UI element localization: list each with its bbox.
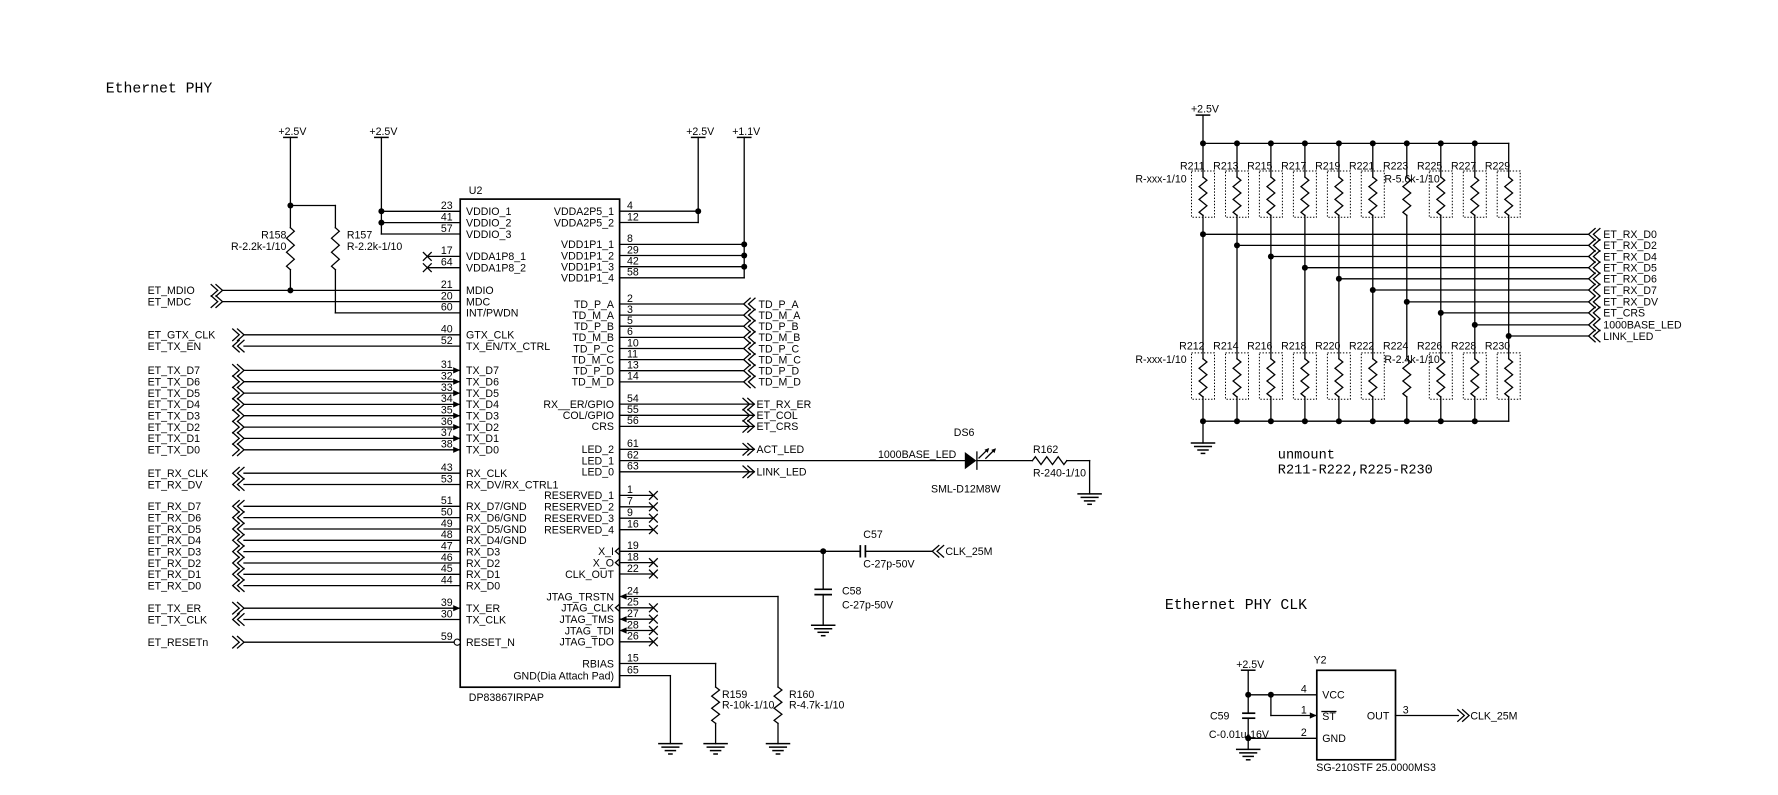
wire C57 to CLK_25M	[865, 550, 932, 552]
pin 65 GND(Dia Attach Pad)	[513, 664, 670, 682]
svg-text:X_I: X_I	[598, 546, 614, 558]
resistor R222	[1349, 287, 1384, 421]
node CLK_25M	[932, 546, 992, 559]
node TD_M_B	[744, 332, 801, 345]
node ET_TX_D2	[148, 421, 244, 434]
LED DS6	[965, 448, 996, 469]
svg-text:VDD1P1_2: VDD1P1_2	[561, 250, 614, 262]
svg-text:+1.1V: +1.1V	[732, 126, 761, 138]
svg-text:R219: R219	[1315, 161, 1340, 173]
label value R-2.4k-1/10	[1384, 354, 1439, 366]
svg-text:CLK_OUT: CLK_OUT	[565, 569, 614, 581]
ground R162	[1078, 494, 1101, 504]
pin 11 TD_M_C	[572, 348, 744, 366]
resistor R221	[1349, 140, 1384, 290]
svg-text:RESERVED_4: RESERVED_4	[544, 525, 614, 537]
pin 31 TX_D7	[244, 359, 499, 377]
label DP83867IRPAP	[469, 692, 544, 704]
svg-text:ET_TX_D6: ET_TX_D6	[148, 377, 201, 389]
resistor R215	[1247, 140, 1282, 256]
node ET_RX_CLK	[148, 467, 244, 480]
svg-text:29: 29	[627, 244, 639, 256]
svg-text:ET_TX_D1: ET_TX_D1	[148, 433, 201, 445]
resistor R159	[712, 687, 720, 723]
svg-text:C-27p-50V: C-27p-50V	[863, 558, 915, 570]
pin 34 TX_D4	[244, 393, 499, 411]
resistor R160	[774, 687, 782, 723]
pin 18 X_O	[593, 551, 658, 569]
node ET_TX_D0	[148, 444, 244, 457]
pin 33 TX_D5	[244, 382, 499, 400]
svg-text:TX_D2: TX_D2	[466, 422, 499, 434]
svg-text:RESET_N: RESET_N	[466, 637, 515, 649]
pin 39 TX_ER	[244, 597, 500, 615]
svg-text:ET_RX_D5: ET_RX_D5	[148, 524, 202, 536]
svg-text:ET_RESETn: ET_RESETn	[148, 637, 209, 649]
svg-text:20: 20	[441, 290, 453, 302]
pin 53 RX_DV/RX_CTRL1	[244, 473, 559, 491]
svg-text:R226: R226	[1417, 341, 1442, 353]
label R157 R-2.2k-1/10	[347, 229, 402, 253]
node TD_M_D	[744, 376, 802, 389]
svg-text:57: 57	[441, 223, 453, 235]
svg-text:63: 63	[627, 461, 639, 473]
svg-text:ET_RX_D2: ET_RX_D2	[148, 558, 202, 570]
svg-text:INT/PWDN: INT/PWDN	[466, 308, 518, 320]
capacitor C58	[814, 589, 832, 594]
svg-text:TX_CLK: TX_CLK	[466, 614, 506, 626]
power +2.5V VDDA2P5	[686, 126, 715, 223]
svg-text:TD_M_D: TD_M_D	[572, 377, 615, 389]
svg-text:37: 37	[441, 427, 453, 439]
svg-text:SML-D12M8W: SML-D12M8W	[931, 483, 1000, 495]
svg-text:VDDA2P5_1: VDDA2P5_1	[554, 206, 614, 218]
pin 13 TD_P_D	[573, 360, 743, 378]
svg-text:RX_D6/GND: RX_D6/GND	[466, 512, 527, 524]
svg-text:DP83867IRPAP: DP83867IRPAP	[469, 692, 544, 704]
node ET_RX_ER	[743, 398, 812, 411]
svg-text:TX_EN/TX_CTRL: TX_EN/TX_CTRL	[466, 341, 550, 353]
resistor R213	[1213, 140, 1248, 245]
svg-text:R221: R221	[1349, 161, 1374, 173]
node ET_MDIO	[148, 285, 223, 298]
svg-text:R-2.2k-1/10: R-2.2k-1/10	[231, 241, 286, 253]
svg-text:1: 1	[1301, 704, 1307, 716]
svg-text:ET_TX_D0: ET_TX_D0	[148, 445, 201, 457]
pin 49 RX_D5/GND	[244, 518, 527, 536]
pin 7 RESERVED_2	[544, 496, 657, 514]
svg-text:R-5.6k-1/10: R-5.6k-1/10	[1384, 174, 1439, 186]
svg-text:4: 4	[1301, 684, 1307, 696]
wire R160 to ground	[777, 723, 779, 743]
svg-text:MDC: MDC	[466, 296, 490, 308]
svg-text:24: 24	[627, 585, 639, 597]
wire to C58	[822, 551, 824, 589]
svg-text:R230: R230	[1485, 341, 1510, 353]
svg-text:VDDA1P8_1: VDDA1P8_1	[466, 251, 526, 263]
svg-text:ET_CRS: ET_CRS	[1603, 308, 1645, 320]
label SG-210STF 25.0000MS3	[1316, 762, 1436, 774]
svg-text:JTAG_TMS: JTAG_TMS	[559, 614, 614, 626]
svg-text:ET_RX_D1: ET_RX_D1	[148, 569, 202, 581]
svg-text:R217: R217	[1281, 161, 1306, 173]
svg-text:43: 43	[441, 462, 453, 474]
svg-text:R-xxx-1/10: R-xxx-1/10	[1135, 354, 1186, 366]
svg-text:TD_M_D: TD_M_D	[759, 377, 802, 389]
svg-text:GND: GND	[1322, 733, 1346, 745]
node ET_GTX_CLK	[148, 329, 244, 342]
resistor R218	[1281, 265, 1316, 422]
pin 51 RX_D7/GND	[244, 495, 527, 513]
IC U2 DP83867IRPAP body	[460, 199, 619, 687]
node ET_TX_CLK	[148, 614, 244, 627]
node ET_RX_D0	[148, 580, 244, 593]
svg-text:ET_TX_ER: ET_TX_ER	[148, 603, 202, 615]
svg-text:R228: R228	[1451, 341, 1476, 353]
label unmount R211-R222,R225-R230	[1278, 449, 1433, 479]
svg-text:2: 2	[1301, 727, 1307, 739]
svg-text:ACT_LED: ACT_LED	[757, 444, 805, 456]
svg-text:15: 15	[627, 652, 639, 664]
svg-text:ET_GTX_CLK: ET_GTX_CLK	[148, 330, 216, 342]
svg-text:RX__ER/GPIO: RX__ER/GPIO	[543, 399, 614, 411]
svg-text:R222: R222	[1349, 341, 1374, 353]
pin 44 RX_D0	[244, 574, 500, 592]
svg-text:ET_TX_D5: ET_TX_D5	[148, 388, 201, 400]
svg-text:ET_CRS: ET_CRS	[757, 421, 799, 433]
wire ET_RX_D6	[1339, 273, 1657, 286]
wire R158 to MDIO junction	[287, 270, 293, 294]
svg-text:21: 21	[441, 279, 453, 291]
node TD_P_C	[744, 343, 800, 356]
svg-text:28: 28	[627, 619, 639, 631]
pin 23 VDDIO_1	[381, 200, 511, 218]
node ET_COL	[743, 410, 798, 423]
svg-text:49: 49	[441, 518, 453, 530]
svg-text:+2.5V: +2.5V	[1191, 104, 1220, 116]
pin 22 CLK_OUT	[565, 563, 657, 581]
node ET_TX_D4	[148, 399, 244, 412]
svg-text:TX_D7: TX_D7	[466, 365, 499, 377]
resistor R211	[1180, 140, 1215, 234]
node ET_RX_D3	[148, 546, 244, 559]
svg-text:unmount: unmount	[1278, 449, 1335, 464]
wire ET_RX_D7	[1373, 284, 1657, 297]
node ET_RX_D4	[148, 535, 244, 548]
resistor R158	[287, 228, 295, 270]
power +2.5V array	[1191, 104, 1220, 144]
pin 57 VDDIO_3	[381, 223, 511, 241]
svg-text:33: 33	[441, 382, 453, 394]
pin 15 RBIAS	[582, 652, 715, 670]
pin 29 VDD1P1_2	[561, 244, 744, 262]
svg-text:ET_MDIO: ET_MDIO	[148, 285, 195, 297]
pin 25 JTAG_CLK	[561, 597, 657, 615]
pin 64 VDDA1P8_2	[423, 257, 526, 275]
label R159 R-10k-1/10	[722, 689, 775, 712]
svg-text:62: 62	[627, 449, 639, 461]
svg-text:R224: R224	[1383, 341, 1408, 353]
resistor R219	[1315, 140, 1350, 278]
node ET_RX_D5	[148, 523, 244, 536]
node ET_TX_D6	[148, 376, 244, 389]
svg-text:ET_RX_D7: ET_RX_D7	[148, 501, 202, 513]
svg-text:RESERVED_3: RESERVED_3	[544, 513, 614, 525]
svg-text:R223: R223	[1383, 161, 1408, 173]
svg-text:JTAG_TDO: JTAG_TDO	[559, 637, 614, 649]
svg-text:56: 56	[627, 415, 639, 427]
svg-text:ET_TX_CLK: ET_TX_CLK	[148, 614, 207, 626]
pin 19 X_I	[598, 540, 860, 558]
pin 61 LED_2	[582, 438, 755, 456]
svg-text:TX_D0: TX_D0	[466, 445, 499, 457]
svg-text:VDDA1P8_2: VDDA1P8_2	[466, 263, 526, 275]
pin 45 RX_D1	[244, 563, 500, 581]
svg-text:C-27p-50V: C-27p-50V	[842, 600, 894, 612]
pin 14 TD_M_D	[572, 371, 744, 389]
ground U2 pad	[659, 744, 682, 754]
svg-text:65: 65	[627, 664, 639, 676]
svg-text:MDIO: MDIO	[466, 285, 494, 297]
svg-text:RX_D0: RX_D0	[466, 580, 500, 592]
svg-text:1000BASE_LED: 1000BASE_LED	[878, 449, 957, 461]
svg-text:ET_RX_D6: ET_RX_D6	[1603, 274, 1657, 286]
wire R157 to INT/PWDN	[334, 270, 336, 313]
svg-text:R-4.7k-1/10: R-4.7k-1/10	[789, 700, 844, 712]
pin 3 TD_M_A	[572, 304, 743, 322]
svg-text:ET_TX_D2: ET_TX_D2	[148, 422, 201, 434]
svg-text:R227: R227	[1451, 161, 1476, 173]
wire GND pad down	[669, 676, 671, 744]
pin 17 VDDA1P8_1	[423, 245, 526, 263]
label value R-5.6k-1/10	[1384, 174, 1439, 186]
pin 12 VDDA2P5_2	[554, 211, 698, 229]
svg-text:RX_D3: RX_D3	[466, 546, 500, 558]
svg-text:SG-210STF 25.0000MS3: SG-210STF 25.0000MS3	[1316, 762, 1436, 774]
svg-text:LINK_LED: LINK_LED	[1603, 331, 1653, 343]
node ET_TX_EN	[148, 340, 244, 353]
wire array bottom bus	[1200, 418, 1509, 424]
svg-text:LED_1: LED_1	[582, 455, 614, 467]
svg-text:VCC: VCC	[1322, 690, 1345, 702]
svg-text:ET_MDC: ET_MDC	[148, 296, 192, 308]
svg-text:R218: R218	[1281, 341, 1306, 353]
svg-text:VDDIO_1: VDDIO_1	[466, 206, 511, 218]
resistor R223	[1383, 140, 1411, 302]
svg-text:+2.5V: +2.5V	[1236, 659, 1265, 671]
svg-text:61: 61	[627, 438, 639, 450]
wire DS6 to R162	[977, 460, 1033, 462]
label DS6	[954, 427, 975, 439]
svg-text:RESERVED_1: RESERVED_1	[544, 490, 614, 502]
pin 26 JTAG_TDO	[559, 631, 657, 649]
svg-text:R229: R229	[1485, 161, 1510, 173]
svg-text:48: 48	[441, 529, 453, 541]
svg-text:RESERVED_2: RESERVED_2	[544, 502, 614, 514]
resistor R220	[1315, 276, 1350, 421]
svg-text:R215: R215	[1247, 161, 1272, 173]
svg-text:16: 16	[627, 519, 639, 531]
label U2	[469, 185, 483, 197]
label R162 R-240-1/10	[1033, 444, 1086, 480]
node TD_P_A	[744, 298, 800, 311]
svg-text:R225: R225	[1417, 161, 1442, 173]
svg-text:Y2: Y2	[1314, 654, 1327, 666]
pin 5 TD_P_B	[574, 315, 744, 333]
wire C58 to ground	[822, 595, 824, 626]
svg-text:R212: R212	[1179, 341, 1204, 353]
pin 55 COL/GPIO	[563, 404, 755, 422]
svg-text:31: 31	[441, 359, 453, 371]
svg-text:ET_RX_D7: ET_RX_D7	[1603, 285, 1657, 297]
pin 16 RESERVED_4	[544, 519, 657, 537]
svg-text:R158: R158	[261, 229, 286, 241]
pin 59 RESET_N	[244, 631, 515, 649]
pin 54 RX__ER/GPIO	[543, 393, 754, 411]
resistor R229	[1485, 143, 1520, 336]
svg-text:64: 64	[441, 257, 453, 269]
pin 9 RESERVED_3	[544, 507, 657, 525]
pin 38 TX_D0	[244, 439, 499, 457]
svg-text:JTAG_TRSTN: JTAG_TRSTN	[547, 591, 615, 603]
svg-text:RX_D4/GND: RX_D4/GND	[466, 535, 527, 547]
wire ET_RX_DV	[1407, 296, 1659, 309]
svg-text:VDDIO_3: VDDIO_3	[466, 229, 511, 241]
svg-text:12: 12	[627, 211, 639, 223]
svg-text:CLK_25M: CLK_25M	[945, 546, 992, 558]
svg-text:44: 44	[441, 574, 453, 586]
svg-text:LED_2: LED_2	[582, 444, 614, 456]
svg-text:TX_D4: TX_D4	[466, 399, 499, 411]
resistor R224	[1383, 299, 1411, 421]
svg-text:50: 50	[441, 506, 453, 518]
svg-text:GND(Dia Attach Pad): GND(Dia Attach Pad)	[513, 670, 614, 682]
svg-text:35: 35	[441, 405, 453, 417]
resistor R225	[1417, 140, 1452, 313]
node ET_TX_D7	[148, 365, 244, 378]
pin 20 MDC	[223, 290, 491, 308]
svg-text:19: 19	[627, 540, 639, 552]
svg-text:JTAG_TDI: JTAG_TDI	[565, 625, 614, 637]
wire R158-R157 tie	[290, 205, 335, 207]
node ET_MDC	[148, 296, 223, 309]
pin 27 JTAG_TMS	[559, 608, 657, 626]
node ET_RESETn	[148, 636, 244, 649]
svg-text:47: 47	[441, 540, 453, 552]
power +2.5V R158	[278, 126, 307, 228]
wire ET_CRS	[1441, 307, 1645, 320]
svg-text:RX_D5/GND: RX_D5/GND	[466, 524, 527, 536]
svg-text:ET_TX_D3: ET_TX_D3	[148, 411, 201, 423]
svg-text:ET_TX_D4: ET_TX_D4	[148, 399, 201, 411]
wire ET_RX_D5	[1305, 262, 1657, 275]
resistor R228	[1451, 322, 1486, 421]
svg-text:59: 59	[441, 631, 453, 643]
node CLK_25M output	[1458, 710, 1518, 723]
svg-text:38: 38	[441, 439, 453, 451]
node ET_TX_D5	[148, 387, 244, 400]
pin 4 VDDA2P5_1	[554, 200, 698, 218]
svg-text:Ethernet PHY CLK: Ethernet PHY CLK	[1165, 598, 1307, 614]
pin 63 LED_0	[582, 461, 755, 479]
wire 1000BASE_LED	[1475, 319, 1682, 332]
node TD_M_A	[744, 309, 802, 322]
svg-text:VDDA2P5_2: VDDA2P5_2	[554, 217, 614, 229]
svg-text:TX_D3: TX_D3	[466, 411, 499, 423]
svg-text:VDD1P1_4: VDD1P1_4	[561, 273, 614, 285]
pin 4 VCC	[1248, 684, 1345, 702]
pin 43 RX_CLK	[244, 462, 507, 480]
svg-text:14: 14	[627, 371, 639, 383]
svg-text:3: 3	[1403, 704, 1409, 716]
ground R160	[767, 744, 790, 754]
pin 62 LED_1	[582, 449, 965, 467]
svg-text:45: 45	[441, 563, 453, 575]
capacitor C59	[1242, 713, 1255, 718]
svg-text:R211-R222,R225-R230: R211-R222,R225-R230	[1278, 463, 1433, 478]
svg-text:4: 4	[627, 200, 633, 212]
svg-text:DS6: DS6	[954, 427, 975, 439]
svg-text:ET_TX_EN: ET_TX_EN	[148, 341, 202, 353]
label C57 C-27p-50V	[863, 529, 915, 570]
svg-text:C58: C58	[842, 585, 862, 597]
wire ET_RX_D2	[1237, 240, 1657, 253]
svg-text:+2.5V: +2.5V	[369, 126, 398, 138]
svg-text:OUT: OUT	[1367, 710, 1390, 722]
svg-text:RX_D7/GND: RX_D7/GND	[466, 501, 527, 513]
svg-text:C57: C57	[863, 529, 883, 541]
ground array	[1192, 421, 1215, 453]
pin 3 OUT	[1367, 704, 1458, 722]
svg-text:53: 53	[441, 473, 453, 485]
resistor R157	[332, 228, 340, 270]
title Ethernet PHY	[106, 82, 213, 98]
pin 36 TX_D2	[244, 416, 499, 434]
svg-text:R162: R162	[1033, 444, 1058, 456]
svg-text:R-2.2k-1/10: R-2.2k-1/10	[347, 241, 402, 253]
resistor R162	[1032, 457, 1066, 465]
pin 32 TX_D6	[244, 371, 499, 389]
svg-text:R157: R157	[347, 229, 372, 241]
svg-text:32: 32	[441, 371, 453, 383]
svg-text:R-2.4k-1/10: R-2.4k-1/10	[1384, 354, 1439, 366]
svg-text:+2.5V: +2.5V	[278, 126, 307, 138]
wire RBIAS down	[715, 664, 717, 688]
pin 40 GTX_CLK	[244, 324, 514, 342]
resistor R216	[1247, 254, 1282, 422]
node ET_RX_D2	[148, 557, 244, 570]
node ET_RX_DV	[148, 479, 244, 492]
svg-text:RX_D1: RX_D1	[466, 569, 500, 581]
pin 47 RX_D3	[244, 540, 500, 558]
svg-text:ET_TX_D7: ET_TX_D7	[148, 365, 201, 377]
node ET_TX_D3	[148, 410, 244, 423]
wire ET_RX_D4	[1271, 251, 1657, 264]
svg-text:RBIAS: RBIAS	[582, 658, 614, 670]
label R160 R-4.7k-1/10	[789, 689, 844, 712]
svg-text:+2.5V: +2.5V	[686, 126, 715, 138]
svg-text:TX_D5: TX_D5	[466, 388, 499, 400]
svg-text:23: 23	[441, 200, 453, 212]
pin 50 RX_D6/GND	[244, 506, 527, 524]
svg-text:39: 39	[441, 597, 453, 609]
node TD_P_D	[744, 365, 800, 378]
power +1.1V VDD1P1	[732, 126, 761, 278]
wire R159 to ground	[715, 723, 717, 743]
svg-text:ET_RX_CLK: ET_RX_CLK	[148, 468, 209, 480]
svg-text:54: 54	[627, 393, 639, 405]
svg-text:60: 60	[441, 302, 453, 314]
